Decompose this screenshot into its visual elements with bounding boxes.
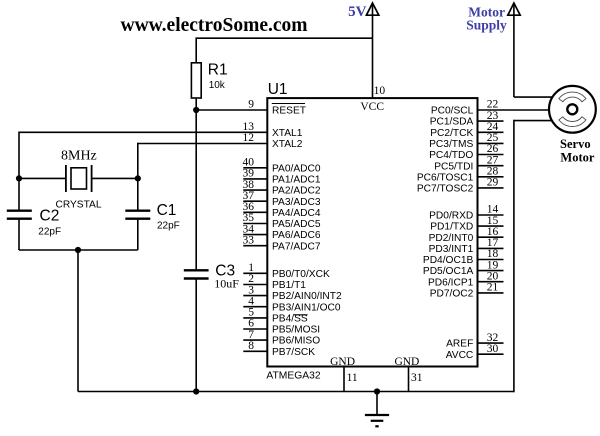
5V power symbol [372, 3, 374, 98]
svg-text:Supply: Supply [466, 17, 507, 32]
pin 27 PC5/TDI [478, 165, 504, 167]
pin 23 PC1/SDA [478, 120, 504, 122]
svg-text:29: 29 [487, 177, 499, 189]
svg-text:21: 21 [487, 282, 499, 294]
svg-text:PB6/MISO: PB6/MISO [272, 336, 320, 347]
pin 34 PA6/ADC6 [243, 234, 267, 236]
pin 20 PD6/ICP1 [478, 281, 504, 283]
pin 2 PB1/T1 [243, 284, 267, 286]
svg-text:GND: GND [330, 356, 355, 368]
pin 30 AVCC [478, 353, 504, 355]
svg-text:PA6/ADC6: PA6/ADC6 [272, 230, 321, 241]
svg-text:U1: U1 [268, 81, 288, 98]
wire R1 top to 5V line [196, 37, 372, 39]
resistor R1 [191, 63, 201, 98]
svg-text:5V: 5V [348, 4, 367, 20]
svg-text:22pF: 22pF [157, 221, 180, 232]
pin 25 PC3/TMS [478, 142, 504, 144]
ground symbol [376, 392, 378, 416]
svg-text:PB2/AIN0/INT2: PB2/AIN0/INT2 [272, 291, 342, 302]
Motor Supply power symbol [513, 3, 515, 97]
pin 21 PD7/OC2 [478, 292, 504, 294]
svg-text:8: 8 [248, 340, 254, 352]
svg-text:PD7/OC2: PD7/OC2 [430, 289, 474, 300]
svg-text:31: 31 [411, 372, 423, 384]
pin 1 PB0/T0/XCK [243, 272, 267, 274]
pin 14 PD0/RXD [478, 214, 504, 216]
svg-text:39: 39 [243, 168, 255, 180]
pin GND 31 [408, 367, 410, 392]
node junction R1/RESET [193, 107, 199, 113]
pin 4 PB3/AIN1/OC0 [243, 306, 267, 308]
svg-text:RESET: RESET [272, 106, 306, 117]
svg-text:PD1/TXD: PD1/TXD [430, 222, 473, 233]
svg-text:Motor: Motor [560, 151, 594, 165]
svg-text:ATMEGA32: ATMEGA32 [266, 371, 320, 382]
svg-text:8MHz: 8MHz [61, 148, 97, 163]
svg-text:C1: C1 [157, 202, 177, 219]
svg-text:11: 11 [347, 372, 358, 384]
svg-text:AREF: AREF [446, 339, 473, 350]
pin 39 PA1/ADC1 [243, 178, 267, 180]
pin 36 PA4/ADC4 [243, 211, 267, 213]
svg-text:20: 20 [487, 270, 499, 282]
servo top arc [559, 92, 586, 102]
svg-text:16: 16 [487, 226, 499, 238]
pin 18 PD4/OC1B [478, 259, 504, 261]
svg-text:XTAL1: XTAL1 [272, 128, 303, 139]
svg-text:7: 7 [248, 329, 254, 341]
svg-text:PB0/T0/XCK: PB0/T0/XCK [272, 269, 330, 280]
pin 8 PB7/SCK [243, 350, 267, 352]
crystal X1 8MHz [19, 177, 66, 179]
pin 22 PC0/SCL [478, 109, 549, 111]
pin 24 PC2/TCK [478, 131, 504, 133]
svg-text:PC5/TDI: PC5/TDI [434, 161, 473, 172]
pin 33 PA7/ADC7 [243, 245, 267, 247]
svg-text:PB1/T1: PB1/T1 [272, 280, 306, 291]
svg-text:PC1/SDA: PC1/SDA [430, 117, 474, 128]
svg-text:9: 9 [248, 99, 254, 111]
svg-text:www.electroSome.com: www.electroSome.com [121, 15, 308, 36]
svg-text:PB5/MOSI: PB5/MOSI [272, 325, 320, 336]
svg-text:PA4/ADC4: PA4/ADC4 [272, 208, 321, 219]
wire C1 bottom [137, 219, 139, 250]
wire ground rail [78, 391, 514, 393]
node C3-rail [193, 388, 199, 394]
svg-text:PC2/TCK: PC2/TCK [430, 128, 473, 139]
wire left vertical to C2 [18, 132, 20, 211]
node caps-ground [75, 247, 81, 253]
wire C3 bottom to ground rail [195, 279, 197, 392]
pin 17 PD3/INT1 [478, 247, 504, 249]
wire C2 bottom [18, 219, 20, 250]
capacitor C3 [184, 269, 209, 271]
svg-text:PD3/INT1: PD3/INT1 [429, 244, 474, 255]
svg-text:XTAL2: XTAL2 [272, 139, 303, 150]
svg-text:23: 23 [487, 110, 499, 122]
wire XTAL2 pin12 [138, 143, 267, 145]
svg-text:10uF: 10uF [214, 277, 239, 291]
pin GND 11 [343, 367, 345, 392]
svg-text:PD4/OC1B: PD4/OC1B [423, 255, 474, 266]
pin 7 PB6/MISO [243, 339, 267, 341]
svg-text:VCC: VCC [360, 101, 384, 113]
pin 6 PB5/MOSI [243, 328, 267, 330]
svg-text:PA2/ADC2: PA2/ADC2 [272, 186, 321, 197]
pin 40 PA0/ADC0 [243, 167, 267, 169]
svg-text:PC0/SCL: PC0/SCL [431, 106, 474, 117]
capacitor C1 [125, 209, 150, 211]
pin 5 PB4/SS [243, 317, 267, 319]
svg-text:AVCC: AVCC [446, 350, 474, 361]
servo hub [567, 104, 577, 114]
svg-text:30: 30 [487, 343, 499, 355]
svg-text:22pF: 22pF [38, 227, 61, 238]
svg-text:26: 26 [487, 143, 499, 155]
svg-text:CRYSTAL: CRYSTAL [55, 200, 101, 211]
pin 3 PB2/AIN0/INT2 [243, 295, 267, 297]
svg-text:13: 13 [243, 121, 255, 133]
svg-text:PB7/SCK: PB7/SCK [272, 347, 315, 358]
svg-text:PB3/AIN1/OC0: PB3/AIN1/OC0 [272, 302, 341, 313]
wire caps to ground rail [77, 250, 79, 392]
svg-text:12: 12 [243, 132, 255, 144]
svg-text:33: 33 [243, 234, 255, 246]
pin 16 PD2/INT0 [478, 236, 504, 238]
svg-text:PD5/OC1A: PD5/OC1A [423, 266, 474, 277]
pin 32 AREF [478, 342, 504, 344]
svg-text:PC4/TDO: PC4/TDO [429, 150, 473, 161]
svg-text:4: 4 [248, 295, 254, 307]
op chip body U1 ATMEGA32 [267, 98, 477, 366]
pin 19 PD5/OC1A [478, 270, 504, 272]
wire R1 top lead [195, 37, 197, 62]
wire servo ground [514, 120, 553, 122]
wire right vertical to C1 [137, 143, 139, 211]
svg-text:PD6/ICP1: PD6/ICP1 [428, 277, 474, 288]
pin 26 PC4/TDO [478, 154, 504, 156]
svg-text:10k: 10k [209, 80, 226, 91]
svg-text:R1: R1 [208, 62, 228, 79]
svg-text:PD2/INT0: PD2/INT0 [429, 233, 474, 244]
svg-text:Servo: Servo [560, 137, 591, 151]
pin 37 PA3/ADC3 [243, 200, 267, 202]
wire R1 bottom to C3 [195, 98, 197, 270]
pin 35 PA5/ADC5 [243, 223, 267, 225]
servo bottom arc [559, 117, 586, 127]
pin 15 PD1/TXD [478, 225, 504, 227]
svg-text:PD0/RXD: PD0/RXD [429, 211, 473, 222]
svg-text:1: 1 [248, 262, 254, 274]
wire cap bottoms [19, 249, 138, 251]
node ground-rail [374, 388, 380, 394]
node crystal right [135, 175, 141, 181]
servo motor body [549, 86, 596, 133]
svg-text:PC7/TOSC2: PC7/TOSC2 [417, 184, 474, 195]
svg-text:PA1/ADC1: PA1/ADC1 [272, 175, 321, 186]
svg-text:PC3/TMS: PC3/TMS [429, 139, 473, 150]
pin 38 PA2/ADC2 [243, 189, 267, 191]
wire XTAL1 pin13 [19, 131, 267, 133]
svg-text:PA3/ADC3: PA3/ADC3 [272, 197, 321, 208]
svg-text:PA0/ADC0: PA0/ADC0 [272, 163, 321, 174]
pin 29 PC7/TOSC2 [478, 187, 504, 189]
svg-text:PA5/ADC5: PA5/ADC5 [272, 219, 321, 230]
wire RESET pin9 [196, 109, 267, 111]
wire motor supply to servo [514, 96, 553, 98]
svg-text:PC6/TOSC1: PC6/TOSC1 [417, 172, 474, 183]
svg-text:GND: GND [394, 356, 419, 368]
node crystal left [16, 175, 22, 181]
svg-text:10: 10 [374, 85, 386, 97]
svg-text:C2: C2 [40, 208, 60, 225]
svg-text:PA7/ADC7: PA7/ADC7 [272, 241, 321, 252]
svg-text:36: 36 [243, 201, 255, 213]
pin 28 PC6/TOSC1 [478, 176, 504, 178]
capacitor C2 [7, 209, 32, 211]
